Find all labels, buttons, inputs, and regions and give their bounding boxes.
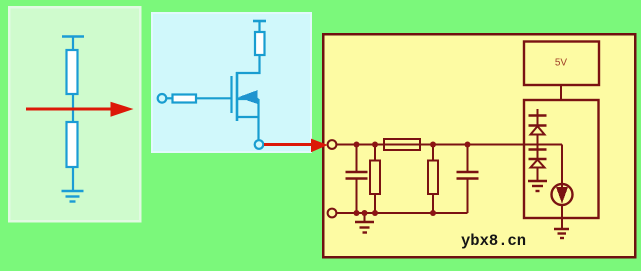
svg-text:ybx8.cn: ybx8.cn (461, 232, 526, 250)
svg-text:5V: 5V (555, 58, 568, 69)
